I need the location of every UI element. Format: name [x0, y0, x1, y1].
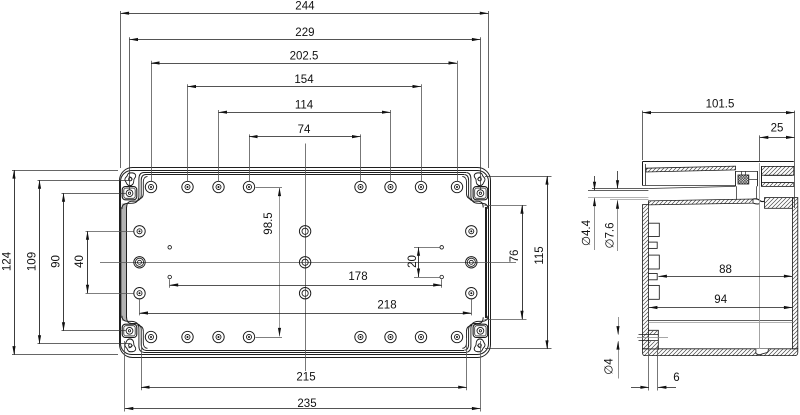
extension lines dim 76 — [485, 205, 527, 207]
inner contour line 4 left — [126, 207, 128, 318]
extension lines dim 229 — [129, 37, 131, 189]
dimension 124 — [14, 170, 16, 355]
perimeter hole bottom row #2 — [182, 331, 193, 342]
svg-text:244: 244 — [295, 1, 315, 13]
dimension 244 — [121, 13, 489, 15]
svg-text:76: 76 — [509, 250, 521, 263]
perimeter hole top row #3 — [213, 181, 224, 192]
dimension 74 — [249, 136, 361, 138]
dimension 202.5 — [151, 63, 457, 65]
extension lines dim 109 — [38, 180, 131, 182]
perimeter hole bottom row #6 — [385, 331, 396, 342]
inner contour line 4 top — [146, 174, 465, 176]
dimension 101.5 — [643, 112, 795, 114]
section lip band left portion (hatched, slanted) — [648, 199, 753, 205]
left column hole y=293.2 — [134, 288, 145, 299]
perimeter hole bottom row #8 — [451, 331, 462, 342]
extension lines dim 90 — [62, 193, 126, 195]
inner contour line 3 top — [144, 172, 467, 174]
section left wall (hatched) — [643, 205, 649, 349]
counterbore hole lines (7.6) — [592, 188, 648, 190]
svg-text:101.5: 101.5 — [706, 99, 735, 111]
svg-text:115: 115 — [534, 246, 546, 264]
extension lines dim 235 — [124, 341, 126, 412]
wall mounting cavity top-left — [124, 171, 136, 187]
left wall gray band — [122, 204, 127, 321]
svg-text:94: 94 — [714, 294, 727, 306]
dimension 20 — [418, 247, 420, 277]
wall mounting cavity top-right — [474, 171, 486, 187]
extension lines dim 40 — [86, 231, 134, 233]
section lid cut slab with hatching — [646, 166, 736, 172]
right column hole y=293.2 — [466, 288, 477, 299]
section lid screw (cross hatched) — [738, 175, 749, 184]
right column hole y=262.3 — [466, 257, 477, 268]
dimension 218 — [140, 313, 472, 315]
through hole lines (4.4) — [588, 190, 648, 192]
svg-text:40: 40 — [74, 255, 86, 268]
perimeter hole bottom row #7 — [415, 331, 426, 342]
section bottom wall (hatched) — [643, 349, 798, 356]
dimension 109 — [39, 180, 41, 343]
extension lines dim 202.5 — [151, 61, 153, 182]
svg-text:6: 6 — [673, 372, 679, 384]
dimension 115 — [547, 176, 549, 349]
small pilot hole (441.7,247.3) — [440, 246, 444, 250]
small pilot hole (169.7,247.3) — [168, 246, 172, 250]
svg-text:109: 109 — [27, 252, 39, 271]
diameter 4.4 dimension — [594, 176, 596, 190]
section lid bottom line — [643, 185, 737, 187]
dimension 90 — [63, 193, 65, 331]
dimension 154 — [188, 86, 422, 88]
corner boss / lid screw bottom-left — [122, 324, 137, 337]
extension lines dim 154 — [187, 84, 189, 181]
dimension 98.5 — [279, 188, 281, 337]
perimeter hole top row #2 — [182, 181, 193, 192]
pcb card guide tabs — [648, 223, 659, 236]
wall mounting cavity bottom-left — [124, 338, 136, 354]
inner contour line 4 bottom — [146, 350, 465, 352]
perimeter hole bottom row #4 — [243, 331, 254, 342]
svg-text:218: 218 — [377, 299, 396, 311]
inner contour line 4 right — [485, 207, 487, 318]
svg-text:154: 154 — [294, 74, 314, 86]
svg-text:235: 235 — [297, 398, 316, 410]
dimension 6 (outside arrows) — [631, 387, 649, 389]
svg-text:88: 88 — [719, 264, 732, 276]
inner contour line 3 bottom — [144, 352, 467, 354]
extension line dim 25 — [759, 135, 761, 162]
extension lines dim 101.5 — [642, 111, 644, 160]
enclosure lid outline (outermost) — [120, 168, 491, 358]
dimension 114 — [219, 112, 391, 114]
section inner step line — [648, 320, 792, 322]
svg-text:∅4: ∅4 — [604, 358, 616, 375]
inner contour line 3 right — [486, 207, 488, 318]
dimension 25 — [760, 137, 795, 139]
svg-text:25: 25 — [771, 122, 784, 134]
dimension 76 — [522, 205, 524, 319]
section lid top face — [643, 161, 794, 163]
section bottom screw boss — [648, 330, 658, 349]
svg-text:∅4.4: ∅4.4 — [581, 219, 593, 246]
section lid left edge — [642, 162, 644, 186]
extension lines dim 98.5 — [256, 187, 283, 189]
extension lines dim 114 — [218, 110, 220, 181]
section flange top (draft line) — [648, 186, 735, 188]
dimension 40 — [87, 231, 89, 293]
perimeter hole bottom row #1 — [145, 331, 156, 342]
corner pocket contour top-right — [466, 173, 488, 210]
left column hole y=262.3 — [134, 257, 145, 268]
dimension 229 — [130, 39, 481, 41]
section lip band right block (hatched) — [765, 198, 793, 209]
perimeter hole top row #5 — [355, 181, 366, 192]
center column hole y=231.3 — [299, 226, 310, 237]
dimension 215 — [141, 387, 467, 389]
inner contour line 3 left — [121, 207, 123, 318]
perimeter hole top row #8 — [451, 181, 462, 192]
extension lines dim 244 — [120, 11, 122, 168]
svg-text:90: 90 — [51, 255, 63, 268]
section lid screw pocket — [735, 171, 737, 186]
extension lines dim 115 — [485, 176, 552, 178]
dimension 178 — [170, 285, 442, 287]
center column hole y=293.2 — [299, 288, 310, 299]
left column hole y=231.3 — [134, 226, 145, 237]
vertical centerline — [305, 144, 307, 372]
section right wall (hatched) — [792, 198, 797, 349]
extension lines dim 74 — [249, 134, 251, 181]
corner pocket contour bottom-left — [122, 316, 144, 353]
lip screw-boss curl detail — [753, 199, 765, 202]
wall mounting cavity bottom-right — [474, 338, 486, 354]
diameter 7.6 dimension — [617, 171, 619, 189]
corner boss / lid screw top-left — [122, 187, 137, 200]
diameter 4 dimension — [618, 317, 620, 335]
corner pocket contour top-left — [122, 173, 144, 210]
svg-text:124: 124 — [2, 251, 14, 271]
corner boss / lid screw bottom-right — [473, 324, 488, 337]
extension lines dim 215 — [141, 338, 143, 390]
extension lines dim 124 — [12, 170, 118, 172]
perimeter hole top row #4 — [243, 181, 254, 192]
svg-text:114: 114 — [295, 100, 314, 112]
small pilot hole (441.7,277.0) — [440, 275, 444, 279]
small pilot hole (169.7,277.0) — [168, 275, 172, 279]
perimeter hole bottom row #3 — [213, 331, 224, 342]
dimension 235 — [125, 408, 481, 410]
enclosure body outline — [121, 171, 489, 355]
svg-text:∅7.6: ∅7.6 — [605, 222, 617, 248]
extension lines dim 20 — [414, 247, 440, 249]
screw axis line — [759, 163, 761, 353]
horizontal centerline — [100, 262, 516, 264]
svg-text:74: 74 — [298, 124, 311, 136]
perimeter hole top row #7 — [415, 181, 426, 192]
svg-text:229: 229 — [295, 27, 314, 39]
dimension 94 — [649, 307, 793, 309]
bottom right screw boss foot — [756, 349, 768, 355]
extension lines dim 6 — [648, 346, 650, 391]
svg-text:98.5: 98.5 — [263, 212, 275, 234]
center column hole y=262.3 — [299, 257, 310, 268]
dimension 88 — [658, 276, 792, 278]
extension lines dim 178 — [169, 279, 171, 288]
boss hole 4mm lines — [639, 334, 659, 336]
extension lines dim 218 — [139, 298, 141, 315]
svg-text:215: 215 — [296, 372, 315, 384]
right column hole y=231.3 — [466, 226, 477, 237]
corner pocket contour bottom-right — [466, 316, 488, 353]
perimeter hole top row #6 — [385, 181, 396, 192]
section lid hinge-side block — [762, 166, 794, 175]
svg-text:20: 20 — [407, 255, 419, 268]
svg-text:178: 178 — [348, 271, 367, 283]
perimeter hole bottom row #5 — [355, 331, 366, 342]
perimeter hole top row #1 — [145, 181, 156, 192]
corner boss / lid screw top-right — [473, 187, 488, 200]
svg-text:202.5: 202.5 — [290, 50, 319, 62]
